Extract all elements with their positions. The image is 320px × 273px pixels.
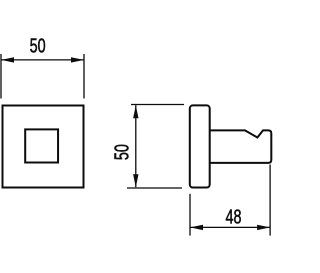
svg-text:50: 50 (110, 144, 133, 160)
svg-text:48: 48 (226, 205, 242, 228)
svg-text:50: 50 (30, 34, 46, 57)
